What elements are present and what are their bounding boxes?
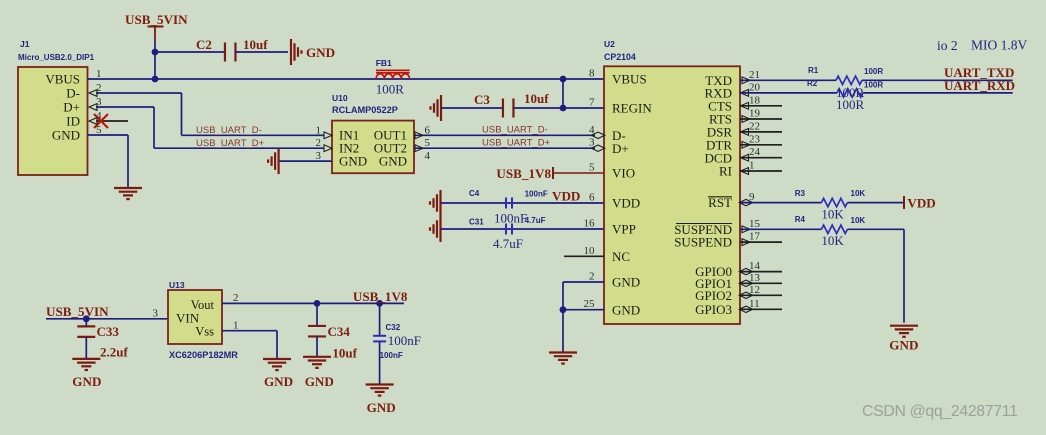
svg-text:100nF: 100nF	[494, 211, 527, 226]
svg-text:XC6206P182MR: XC6206P182MR	[169, 350, 238, 360]
svg-text:100R: 100R	[836, 97, 865, 112]
svg-text:10uf: 10uf	[524, 91, 549, 106]
svg-text:10: 10	[584, 245, 596, 257]
svg-text:J1: J1	[20, 39, 30, 49]
svg-text:10K: 10K	[821, 207, 844, 222]
svg-text:100R: 100R	[864, 81, 883, 90]
svg-text:4: 4	[425, 150, 431, 162]
svg-text:MIO 1.8V: MIO 1.8V	[971, 38, 1027, 53]
svg-text:10uf: 10uf	[332, 346, 357, 361]
svg-text:R4: R4	[795, 215, 806, 224]
svg-text:GND: GND	[305, 374, 334, 389]
svg-text:C33: C33	[97, 324, 120, 339]
svg-text:C2: C2	[196, 37, 212, 52]
svg-text:22: 22	[749, 120, 760, 132]
svg-text:GND: GND	[612, 275, 640, 290]
svg-text:C32: C32	[386, 323, 401, 332]
svg-text:5: 5	[589, 162, 595, 174]
svg-text:16: 16	[584, 218, 596, 230]
svg-text:C4: C4	[469, 189, 480, 198]
svg-text:100R: 100R	[376, 82, 405, 97]
svg-text:VIO: VIO	[612, 166, 635, 181]
svg-text:6: 6	[589, 192, 595, 204]
svg-text:17: 17	[749, 231, 761, 243]
svg-text:7: 7	[589, 97, 595, 109]
svg-text:GPIO3: GPIO3	[695, 302, 732, 317]
svg-text:ID: ID	[66, 113, 80, 128]
svg-text:C31: C31	[469, 218, 484, 227]
svg-text:Vout: Vout	[191, 298, 215, 312]
svg-text:io 2: io 2	[937, 38, 958, 53]
svg-text:CSDN @qq_24287711: CSDN @qq_24287711	[862, 403, 1018, 420]
svg-text:10K: 10K	[821, 233, 844, 248]
svg-text:R2: R2	[807, 79, 818, 88]
svg-text:GND: GND	[72, 374, 101, 389]
svg-text:FB1: FB1	[376, 58, 392, 68]
svg-text:VBUS: VBUS	[612, 72, 647, 87]
svg-text:C3: C3	[474, 92, 490, 107]
svg-text:2: 2	[589, 271, 595, 283]
svg-text:10K: 10K	[851, 189, 866, 198]
svg-text:USB_1V8: USB_1V8	[353, 289, 408, 304]
svg-text:25: 25	[584, 298, 596, 310]
svg-text:GPIO2: GPIO2	[695, 288, 732, 303]
svg-text:RI: RI	[719, 164, 732, 179]
svg-text:100R: 100R	[864, 67, 883, 76]
svg-text:10uf: 10uf	[243, 37, 268, 52]
svg-text:R3: R3	[795, 189, 806, 198]
svg-text:1: 1	[749, 160, 755, 172]
svg-text:100nF: 100nF	[380, 351, 403, 360]
svg-text:U10: U10	[332, 93, 348, 103]
svg-text:Micro_USB2.0_DIP1: Micro_USB2.0_DIP1	[18, 53, 95, 62]
svg-text:UART_RXD: UART_RXD	[944, 78, 1015, 93]
svg-text:10K: 10K	[851, 216, 866, 225]
svg-text:GND: GND	[52, 127, 80, 142]
svg-text:VBUS: VBUS	[45, 71, 80, 86]
svg-text:D+: D+	[63, 99, 80, 114]
svg-text:VDD: VDD	[612, 196, 640, 211]
svg-text:2: 2	[233, 292, 239, 304]
svg-text:21: 21	[749, 69, 760, 81]
svg-text:D-: D-	[66, 85, 80, 100]
svg-text:USB_5VIN: USB_5VIN	[46, 304, 109, 319]
svg-text:USB_UART_D+: USB_UART_D+	[196, 138, 265, 149]
svg-text:RCLAMP0522P: RCLAMP0522P	[332, 105, 398, 115]
svg-text:19: 19	[749, 108, 761, 120]
svg-text:1: 1	[233, 320, 239, 332]
svg-text:GND: GND	[306, 45, 335, 60]
svg-text:USB_1V8: USB_1V8	[496, 166, 551, 181]
svg-text:23: 23	[749, 133, 761, 145]
svg-text:VDD: VDD	[907, 196, 935, 211]
svg-text:D+: D+	[612, 141, 629, 156]
svg-text:C34: C34	[328, 324, 351, 339]
svg-text:GND: GND	[339, 153, 367, 168]
svg-text:VIN: VIN	[176, 311, 200, 326]
svg-text:18: 18	[749, 94, 761, 106]
svg-text:USB_UART_D-: USB_UART_D-	[196, 125, 262, 136]
svg-text:100nF: 100nF	[388, 333, 421, 348]
svg-text:GND: GND	[612, 302, 640, 317]
svg-text:24: 24	[749, 146, 761, 158]
svg-text:4.7uF: 4.7uF	[525, 216, 546, 225]
svg-text:GND: GND	[367, 400, 396, 415]
svg-text:VPP: VPP	[612, 222, 636, 237]
svg-text:VDD: VDD	[552, 189, 580, 204]
svg-text:GND: GND	[889, 338, 918, 353]
svg-text:REGIN: REGIN	[612, 101, 652, 116]
svg-text:20: 20	[749, 81, 761, 93]
svg-text:USB_5VIN: USB_5VIN	[125, 12, 188, 27]
svg-text:Vss: Vss	[195, 325, 214, 339]
svg-text:SUSPEND: SUSPEND	[674, 235, 732, 250]
svg-text:100nF: 100nF	[525, 190, 548, 199]
svg-text:USB_UART_D+: USB_UART_D+	[482, 138, 551, 149]
svg-text:2.2uf: 2.2uf	[100, 345, 128, 360]
svg-text:USB_UART_D-: USB_UART_D-	[482, 125, 548, 136]
svg-text:15: 15	[749, 218, 761, 230]
svg-text:U2: U2	[604, 39, 615, 49]
svg-text:GND: GND	[379, 153, 407, 168]
svg-text:U13: U13	[169, 280, 185, 290]
svg-text:3: 3	[153, 308, 159, 320]
svg-text:RST: RST	[708, 195, 732, 210]
svg-text:NC: NC	[612, 249, 630, 264]
svg-text:4.7uF: 4.7uF	[493, 236, 523, 251]
svg-text:R1: R1	[808, 66, 819, 75]
svg-text:CP2104: CP2104	[604, 52, 636, 62]
svg-text:GND: GND	[264, 374, 293, 389]
svg-text:8: 8	[589, 68, 595, 80]
